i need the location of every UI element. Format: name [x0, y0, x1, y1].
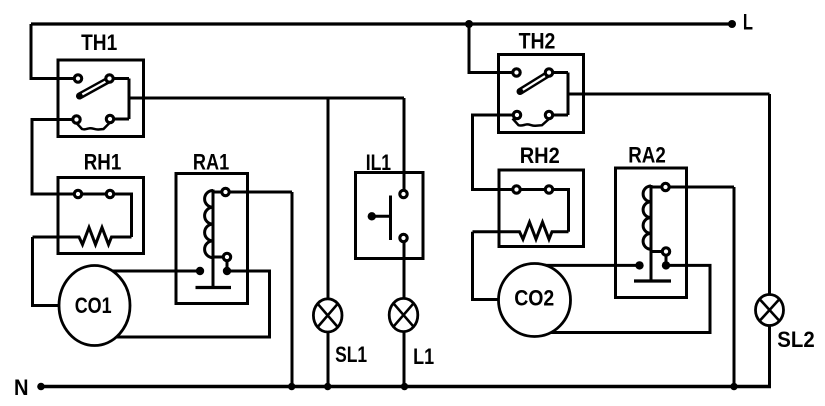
svg-text:N: N [14, 375, 29, 400]
svg-text:CO1: CO1 [75, 293, 112, 318]
svg-text:RA2: RA2 [628, 143, 666, 168]
svg-text:TH1: TH1 [81, 30, 117, 55]
svg-text:SL2: SL2 [777, 327, 814, 352]
svg-text:CO2: CO2 [514, 286, 554, 311]
svg-text:L: L [743, 10, 753, 35]
svg-text:TH2: TH2 [519, 29, 556, 54]
svg-text:RA1: RA1 [193, 150, 229, 175]
svg-text:SL1: SL1 [335, 342, 367, 367]
svg-text:RH2: RH2 [520, 143, 560, 168]
svg-text:L1: L1 [413, 344, 434, 369]
svg-text:IL1: IL1 [366, 150, 391, 175]
svg-text:RH1: RH1 [84, 150, 122, 175]
